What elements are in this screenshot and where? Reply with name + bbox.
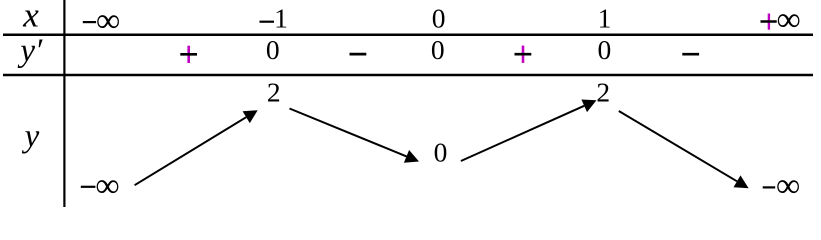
svg-text:∞: ∞ <box>776 168 800 205</box>
arrow down 2 <box>619 111 749 188</box>
svg-text:0: 0 <box>598 34 612 65</box>
row 1: minus infinity <box>83 3 120 40</box>
svg-text:0: 0 <box>434 137 448 168</box>
row 1: -1 <box>260 3 288 34</box>
svg-text:x: x <box>22 0 39 35</box>
svg-text:0: 0 <box>431 34 445 65</box>
row 3: minus infinity (bottom right) <box>763 168 801 205</box>
arrow down 1 <box>290 109 420 163</box>
row 2: sign minus (1) <box>350 53 367 56</box>
row 2: sign + (2) <box>515 46 532 63</box>
svg-text:∞: ∞ <box>95 168 119 205</box>
svg-text:∞: ∞ <box>96 3 120 40</box>
arrow up 2 <box>461 100 597 162</box>
vertical header separator line <box>63 0 65 207</box>
arrow up 1 <box>135 110 258 185</box>
svg-text:y: y <box>22 119 40 155</box>
svg-text:0: 0 <box>432 3 446 34</box>
row 3: minus infinity (bottom left) <box>81 168 120 205</box>
svg-text:2: 2 <box>596 76 610 107</box>
svg-text:0: 0 <box>266 34 280 65</box>
row 1: plus infinity <box>761 2 801 39</box>
svg-text:1: 1 <box>598 3 612 34</box>
svg-text:1: 1 <box>274 3 288 34</box>
row 2: sign + (1) <box>180 46 197 63</box>
svg-text:y′: y′ <box>17 33 43 69</box>
row 2: sign minus (2) <box>682 53 699 56</box>
horizontal separator line 1 (below x row) <box>3 34 813 37</box>
horizontal separator line 2 (below y' row) <box>3 74 813 77</box>
svg-text:2: 2 <box>267 76 281 107</box>
svg-text:∞: ∞ <box>777 2 801 39</box>
